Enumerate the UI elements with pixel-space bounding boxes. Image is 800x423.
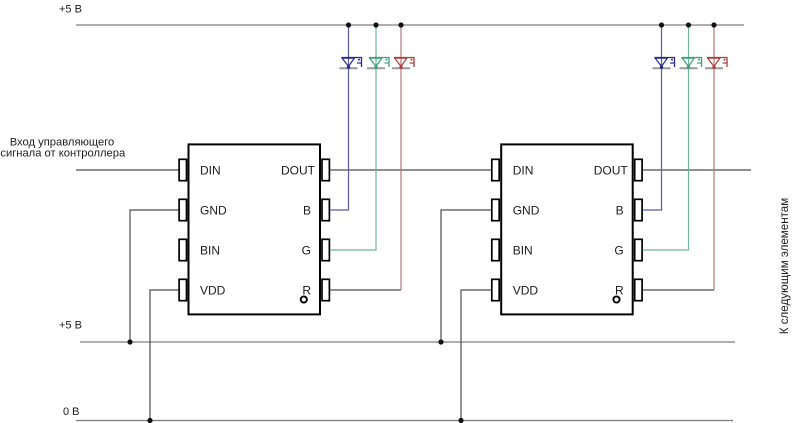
wire U2 GND to +5V middle rail <box>441 210 491 342</box>
svg-text:G: G <box>614 243 623 257</box>
LED D1 blue <box>340 58 362 70</box>
U2 pin BIN <box>492 239 499 260</box>
junction U1 GND at +5V rail <box>127 339 132 344</box>
LED D2 green <box>367 58 389 70</box>
wire D2 green net <box>330 25 376 250</box>
U1 pin DIN <box>179 159 186 180</box>
U2 pin VDD <box>492 279 499 300</box>
wire U1 R to LED D3 cathode <box>330 289 401 291</box>
IC U1 body <box>189 144 321 314</box>
junction D2 green anode at +5V rail <box>373 22 378 27</box>
svg-text:B: B <box>303 203 311 217</box>
U1 pin DOUT <box>322 159 329 180</box>
wire U2 R to LED D6 cathode <box>643 289 715 291</box>
LED D6 red <box>705 58 727 70</box>
U1 pin-1 marker circle <box>301 296 307 302</box>
junction D4 blue anode at +5V rail <box>659 22 664 27</box>
svg-text:R: R <box>615 283 624 297</box>
svg-text:G: G <box>302 243 311 257</box>
U1 pin R <box>322 279 329 300</box>
U1 pin GND <box>179 199 186 220</box>
svg-text:VDD: VDD <box>513 283 539 297</box>
svg-text:DOUT: DOUT <box>281 163 316 177</box>
U1 pin VDD <box>179 279 186 300</box>
svg-text:B: B <box>616 203 624 217</box>
svg-text:GND: GND <box>200 203 227 217</box>
wire D4 blue net <box>643 25 662 210</box>
junction D1 blue anode at +5V rail <box>346 22 351 27</box>
junction U2 GND at +5V rail <box>438 339 443 344</box>
LED D4 blue <box>653 58 675 70</box>
U2 pin DIN <box>492 159 499 180</box>
wire U1 VDD to 0V rail <box>150 290 179 421</box>
svg-text:BIN: BIN <box>513 243 533 257</box>
IC U2 body <box>501 144 633 314</box>
svg-text:К следующим элементам: К следующим элементам <box>778 198 791 335</box>
junction D3 red anode at +5V rail <box>398 22 403 27</box>
svg-text:VDD: VDD <box>200 283 226 297</box>
svg-text:BIN: BIN <box>200 243 220 257</box>
annotation input signal from controller <box>0 137 126 160</box>
wire 0V bottom rail <box>76 420 733 422</box>
svg-text:+5 В: +5 В <box>59 320 82 332</box>
wire D3 red net <box>400 25 402 290</box>
U2 pin GND <box>492 199 499 220</box>
U1 pin G <box>322 239 329 260</box>
svg-text:DOUT: DOUT <box>594 163 629 177</box>
svg-text:DIN: DIN <box>513 163 534 177</box>
wire controller signal to U1 DIN <box>76 169 179 171</box>
U2 pin-1 marker circle <box>613 296 619 302</box>
wire +5V top rail <box>76 24 744 26</box>
junction D5 green anode at +5V rail <box>686 22 691 27</box>
wire U1 DOUT to U2 DIN <box>330 169 491 171</box>
svg-text:DIN: DIN <box>200 163 221 177</box>
U2 pin G <box>635 239 642 260</box>
wire U2 DOUT to next elements <box>643 169 752 171</box>
U1 pin B <box>322 199 329 220</box>
U2 pin DOUT <box>635 159 642 180</box>
svg-text:0 В: 0 В <box>63 406 80 418</box>
svg-text:GND: GND <box>513 203 540 217</box>
U2 pin B <box>635 199 642 220</box>
junction U1 VDD at 0V rail <box>147 418 152 423</box>
wire U1 GND to +5V middle rail <box>130 210 179 342</box>
U1 pin BIN <box>179 239 186 260</box>
LED D5 green <box>680 58 702 70</box>
wire +5V middle rail <box>80 341 735 343</box>
LED D3 red <box>392 58 414 70</box>
wire D6 red net <box>713 25 715 290</box>
junction D6 red anode at +5V rail <box>711 22 716 27</box>
wire U2 VDD to 0V rail <box>461 290 491 421</box>
wire D1 blue net <box>330 25 349 210</box>
U2 pin R <box>635 279 642 300</box>
svg-text:+5 В: +5 В <box>59 4 82 16</box>
wire D5 green net <box>643 25 689 250</box>
junction U2 VDD at 0V rail <box>458 418 463 423</box>
svg-text:R: R <box>302 283 311 297</box>
svg-text:сигнала от контроллера: сигнала от контроллера <box>0 148 126 160</box>
